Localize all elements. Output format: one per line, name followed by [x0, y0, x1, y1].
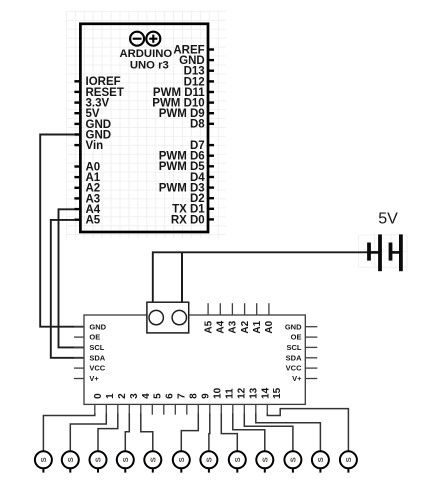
servo M10: [284, 451, 301, 472]
Arduino UNO r3 body: [80, 24, 208, 232]
wire pin 12 to servo M9: [233, 413, 265, 451]
svg-text:S: S: [121, 457, 130, 462]
wire pin 11 to servo M8: [221, 413, 237, 451]
svg-text:RX D0: RX D0: [171, 214, 205, 226]
svg-text:A4: A4: [216, 320, 227, 333]
servo M5: [144, 451, 161, 472]
svg-text:ARDUINO: ARDUINO: [119, 48, 172, 60]
svg-text:4: 4: [141, 393, 152, 399]
svg-text:VCC: VCC: [286, 364, 302, 373]
svg-text:SDA: SDA: [286, 353, 302, 362]
svg-text:A5: A5: [203, 320, 214, 333]
svg-text:5V: 5V: [378, 211, 398, 228]
svg-text:12: 12: [236, 387, 247, 399]
servo M9: [256, 451, 273, 472]
wire pin 14 to servo M11: [256, 413, 321, 451]
board top pin labels: [203, 320, 275, 333]
svg-text:SCL: SCL: [287, 343, 302, 352]
servo M3: [90, 451, 107, 472]
board output pin number labels: [93, 387, 283, 399]
svg-text:S: S: [344, 457, 353, 462]
wire pin 13 to servo M10: [244, 413, 293, 451]
wire battery to connector: [153, 252, 369, 302]
board pin stubs: [74, 303, 317, 415]
svg-text:8: 8: [189, 393, 200, 399]
svg-text:7: 7: [177, 393, 188, 399]
svg-text:9: 9: [201, 393, 212, 399]
svg-text:10: 10: [213, 387, 224, 399]
svg-text:Vin: Vin: [86, 140, 104, 152]
svg-text:S: S: [39, 457, 48, 462]
svg-text:1: 1: [105, 393, 116, 399]
svg-text:15: 15: [272, 387, 283, 399]
wire pin 9 to servo M6: [181, 413, 198, 451]
battery BT1 5V: [369, 234, 401, 271]
svg-text:A5: A5: [86, 215, 101, 227]
wire pin 3 to servo M4: [125, 413, 129, 451]
board side pin labels: [89, 322, 302, 383]
Arduino pin labels: [86, 44, 206, 226]
svg-text:S: S: [177, 457, 186, 462]
servo M1: [35, 451, 52, 472]
servo M8: [229, 451, 246, 472]
wire A5 to board SDA: [51, 220, 85, 358]
servo M7: [200, 451, 217, 472]
svg-text:14: 14: [260, 387, 271, 399]
svg-text:6: 6: [165, 393, 176, 399]
servo M6: [173, 451, 190, 472]
svg-text:SDA: SDA: [89, 353, 105, 362]
svg-text:S: S: [148, 457, 157, 462]
svg-text:V+: V+: [89, 374, 99, 383]
svg-text:A3: A3: [228, 320, 239, 333]
svg-text:S: S: [233, 457, 242, 462]
svg-text:S: S: [260, 457, 269, 462]
svg-text:S: S: [204, 457, 213, 462]
svg-text:13: 13: [248, 387, 259, 399]
wire pin 0 to servo M1: [43, 413, 94, 451]
svg-text:V+: V+: [292, 374, 302, 383]
servo M11: [312, 451, 329, 472]
svg-text:OE: OE: [89, 333, 100, 342]
servo M12: [340, 451, 357, 472]
svg-text:UNO r3: UNO r3: [130, 59, 169, 71]
svg-text:SCL: SCL: [89, 343, 104, 352]
servo M2: [62, 451, 79, 472]
svg-text:5: 5: [153, 393, 164, 399]
svg-text:2: 2: [117, 393, 128, 399]
svg-text:D8: D8: [190, 119, 205, 131]
servo driver board body: [84, 315, 305, 404]
svg-text:S: S: [66, 457, 75, 462]
svg-text:3: 3: [129, 393, 140, 399]
svg-text:A2: A2: [240, 320, 251, 333]
wire GND to board GND: [40, 135, 84, 327]
svg-text:S: S: [94, 457, 103, 462]
svg-text:VCC: VCC: [89, 364, 105, 373]
wire pin 10 to servo M7: [208, 413, 211, 451]
svg-text:S: S: [316, 457, 325, 462]
svg-text:A0: A0: [264, 320, 275, 333]
svg-text:GND: GND: [89, 322, 106, 331]
Arduino logo: [130, 32, 160, 46]
svg-text:0: 0: [93, 393, 104, 399]
wire pin 15 to servo M12: [267, 409, 348, 452]
Arduino pin stubs: [74, 50, 214, 220]
svg-text:GND: GND: [285, 322, 302, 331]
wire pin 2 to servo M3: [98, 413, 118, 451]
svg-text:11: 11: [224, 388, 235, 399]
wire pin 4 to servo M5: [141, 413, 153, 451]
wire pin 1 to servo M2: [70, 413, 106, 451]
wire A4 to board SCL: [59, 209, 85, 347]
servo M4: [117, 451, 134, 472]
svg-text:A1: A1: [252, 320, 263, 333]
svg-text:S: S: [288, 457, 297, 462]
connector J1: [147, 302, 189, 333]
svg-text:OE: OE: [291, 333, 302, 342]
